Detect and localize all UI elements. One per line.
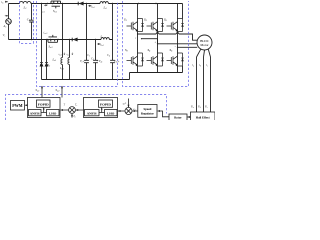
svg-text:PWM: PWM (12, 103, 22, 108)
box FOPID2 (99, 100, 113, 107)
svg-text:Tr: Tr (75, 104, 77, 107)
IGBT S2 (127, 53, 144, 66)
wire phase a stub (142, 38, 158, 40)
box speed regulator (138, 105, 157, 118)
inductor Lo2 mid (101, 38, 109, 40)
svg-text:Motor: Motor (200, 43, 209, 47)
diode D top triangle (79, 2, 84, 6)
svg-text:Vc: Vc (205, 106, 208, 109)
svg-text:Vb: Vb (198, 106, 201, 109)
wire VSI bottom rail (130, 66, 183, 80)
MOSFET Sw2 arrow (50, 39, 52, 41)
wire sw1 gate (41, 86, 43, 98)
IGBT S6 (167, 53, 184, 66)
dashed box control (6, 95, 167, 121)
wire hall b (203, 57, 205, 112)
capacitor Cd (110, 4, 115, 80)
box rotor (169, 114, 187, 121)
wire VSI leg1 (137, 4, 139, 73)
arrow is (5, 15, 8, 16)
svg-text:LHO: LHO (49, 111, 57, 115)
MOSFET Sw2 (48, 35, 58, 42)
diode D2 triangle (45, 63, 48, 67)
wire hall c (210, 57, 212, 112)
box FOPID1 (37, 100, 51, 107)
wire speed feedback (158, 111, 169, 117)
IGBT S3 (147, 19, 164, 32)
diode D mid triangle (73, 38, 78, 42)
inductor Lo1 top (100, 2, 108, 4)
svg-text:iLo2: iLo2 (66, 53, 70, 56)
wire branch D1 (41, 4, 43, 80)
MOSFET Sw1 arrow (52, 3, 54, 5)
box LHO1 (47, 110, 60, 116)
wire VSI leg2 (157, 4, 159, 73)
wire hall to rotor (187, 116, 190, 118)
wire top rail (9, 4, 183, 19)
svg-text:isw2: isw2 (44, 32, 48, 36)
diode D top (77, 2, 79, 6)
svg-text:LHO: LHO (107, 111, 115, 115)
svg-text:iLo2: iLo2 (100, 44, 104, 48)
svg-text:TL: TL (73, 115, 76, 118)
svg-text:ANFIS: ANFIS (30, 111, 40, 115)
svg-text:FOPID: FOPID (38, 102, 49, 106)
IGBT S5 (167, 19, 184, 32)
BLDC motor circle (197, 35, 212, 50)
box controller1 (28, 98, 61, 118)
dashed box input filter (20, 1, 34, 44)
IGBT S1 (127, 19, 144, 32)
wire hall fan (197, 49, 211, 57)
box PWM (11, 101, 25, 111)
wire branch D2 (46, 40, 48, 80)
svg-text:Speed: Speed (143, 107, 151, 111)
wire sw2 gate (61, 86, 63, 98)
wire phase b (158, 39, 198, 44)
dashed box converter (37, 1, 118, 87)
diode D1 triangle (40, 63, 43, 67)
diode D mid (71, 38, 73, 42)
svg-text:Va: Va (191, 106, 194, 109)
svg-text:C1: C1 (87, 54, 90, 58)
svg-text:lc: lc (206, 64, 208, 67)
svg-text:ω*: ω* (123, 103, 127, 106)
wire phase a (138, 33, 198, 41)
wire branch Lo1 vertical (62, 4, 64, 80)
box ANFIS1 (29, 110, 42, 116)
svg-text:iLo1: iLo1 (91, 6, 95, 10)
svg-text:Cd: Cd (107, 54, 110, 58)
capacitor C1 (84, 4, 89, 80)
inductor L1 (20, 1, 31, 3)
wire phase c (178, 46, 198, 48)
svg-text:isw1: isw1 (41, 10, 45, 14)
wire hall a (196, 57, 198, 112)
svg-text:FOPID: FOPID (100, 102, 111, 106)
IGBT S4 (147, 53, 164, 66)
wire branch Lo2 vertical (69, 40, 71, 80)
wire return (42, 79, 130, 81)
dashed box VSI (123, 1, 189, 87)
svg-text:ANFIS: ANFIS (87, 111, 97, 115)
box ANFIS2 (85, 110, 100, 116)
svg-text:Vc+: Vc+ (80, 60, 85, 64)
svg-text:Hall Effect: Hall Effect (196, 116, 210, 120)
box LHO2 (105, 110, 118, 116)
svg-text:iLo1: iLo1 (58, 53, 62, 56)
svg-text:+Vdc: +Vdc (97, 60, 103, 64)
svg-text:Vdc+: Vdc+ (114, 60, 120, 64)
summing junction 1 (69, 107, 76, 114)
wire left vertical (8, 4, 10, 40)
control row (11, 86, 216, 121)
capacitor C2 (93, 40, 98, 80)
wire mid rail (9, 39, 113, 41)
MOSFET Sw1 (51, 1, 61, 8)
arrowheads control (5, 1, 190, 118)
box hall (191, 112, 216, 121)
capacitor C0 (29, 4, 33, 40)
svg-text:C2: C2 (91, 58, 94, 62)
junction dots (7, 1, 178, 48)
svg-text:lb: lb (199, 64, 201, 67)
svg-text:Regulator: Regulator (141, 112, 155, 116)
AC source Vs (6, 19, 12, 25)
wire VSI leg3 (177, 4, 179, 73)
box controller2 (84, 98, 118, 118)
svg-text:la: la (192, 64, 194, 67)
wire PWM input (25, 104, 27, 106)
summing junction 2 (125, 108, 132, 115)
svg-text:Rotor: Rotor (174, 115, 182, 119)
